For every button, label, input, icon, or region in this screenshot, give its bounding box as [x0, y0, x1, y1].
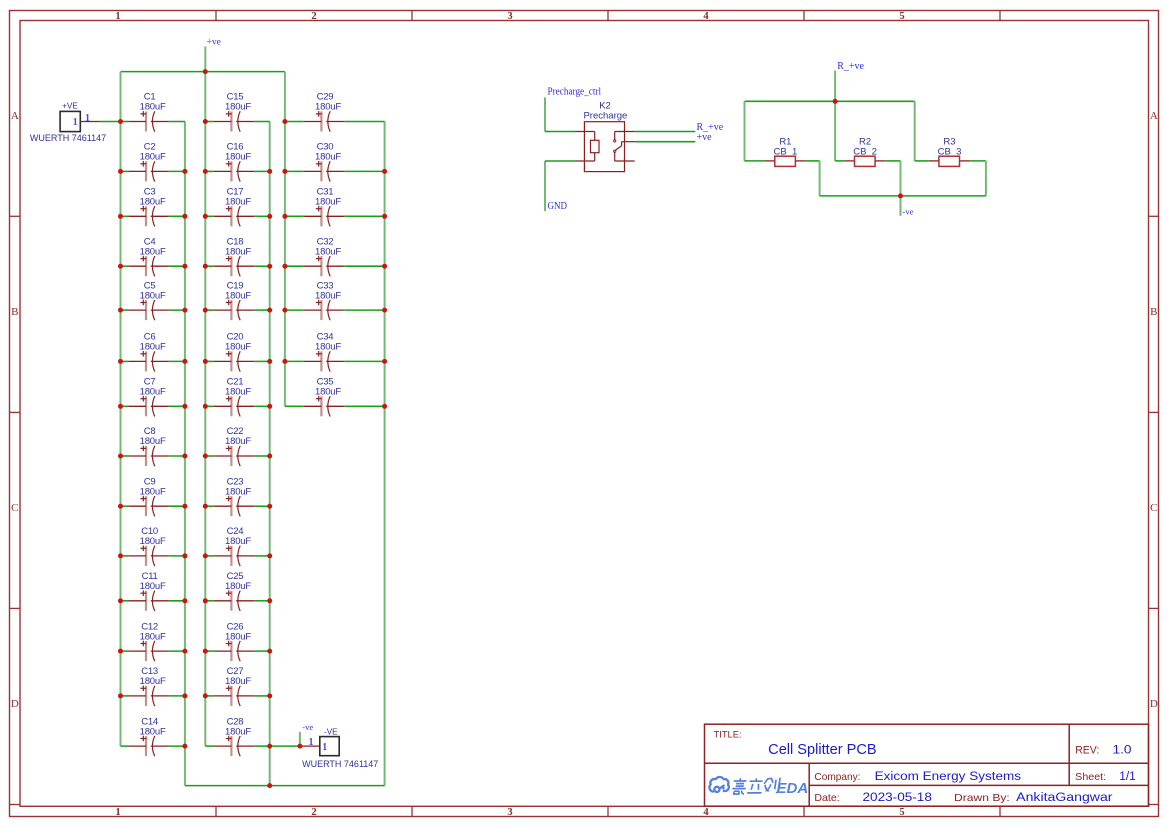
ruler tick right y=216.3	[1149, 215, 1159, 217]
wire row C23	[205, 505, 214, 507]
ruler tick top x=1000	[999, 11, 1001, 21]
wire bottom bus horizontal	[185, 785, 385, 787]
connector J +VE box	[60, 111, 80, 131]
svg-text:1: 1	[309, 737, 314, 748]
svg-text:180uF: 180uF	[225, 342, 251, 353]
svg-text:1: 1	[85, 113, 90, 124]
junction column 1 right rail row 12	[182, 649, 187, 654]
junction column 1 left rail row 6	[118, 359, 123, 364]
svg-text:Sheet:: Sheet:	[1075, 771, 1106, 783]
wire column 2 right rail vertical	[269, 122, 271, 786]
svg-text:180uF: 180uF	[140, 581, 166, 592]
wire row C17	[205, 215, 214, 217]
svg-text:3: 3	[507, 11, 512, 22]
junction column 2 left rail row 27	[203, 693, 208, 698]
capacitor C7 180uF	[128, 377, 168, 417]
capacitor C35 180uF	[304, 377, 344, 417]
junction column 1 right rail row 4	[182, 264, 187, 269]
svg-text:180uF: 180uF	[140, 536, 166, 547]
junction column 2 right rail row 20	[267, 359, 272, 364]
svg-text:D: D	[11, 698, 19, 710]
svg-text:180uF: 180uF	[225, 536, 251, 547]
junction column 2 left rail row 23	[203, 504, 208, 509]
svg-text:C: C	[1150, 502, 1157, 514]
capacitor C3 180uF	[128, 187, 168, 227]
wire R1 out vertical	[819, 161, 821, 196]
svg-text:180uF: 180uF	[225, 290, 251, 301]
svg-text:1.0: 1.0	[1113, 744, 1132, 756]
logo JLC EDA text 嘉立创	[732, 778, 781, 794]
wire R2 left	[835, 160, 844, 162]
junction column 1 left rail row 8	[118, 454, 123, 459]
wire top bus horizontal	[121, 71, 285, 73]
wire row C30	[285, 170, 304, 172]
svg-text:+VE: +VE	[62, 102, 78, 111]
svg-text:180uF: 180uF	[140, 102, 166, 113]
svg-text:5: 5	[899, 11, 904, 22]
capacitor C10 180uF	[128, 526, 168, 566]
title block outline	[705, 724, 1149, 806]
svg-text:C: C	[11, 502, 18, 514]
svg-text:180uF: 180uF	[140, 726, 166, 737]
svg-text:180uF: 180uF	[225, 152, 251, 163]
ruler tick top x=412	[411, 11, 413, 21]
svg-text:TITLE:: TITLE:	[714, 729, 742, 739]
svg-text:WUERTH 7461147: WUERTH 7461147	[30, 133, 106, 143]
svg-text:1: 1	[115, 11, 120, 22]
svg-text:180uF: 180uF	[225, 726, 251, 737]
svg-text:1: 1	[322, 742, 327, 753]
svg-text:180uF: 180uF	[315, 387, 341, 398]
relay K2 switch common	[614, 132, 616, 141]
svg-text:AnkitaGangwar: AnkitaGangwar	[1016, 792, 1113, 804]
junction column 2 left rail row 17	[203, 214, 208, 219]
svg-text:180uF: 180uF	[140, 342, 166, 353]
capacitor C13 180uF	[128, 666, 168, 706]
wire row C29	[285, 121, 304, 123]
junction column 2 left rail row 25	[203, 598, 208, 603]
ruler tick right y=608.4	[1149, 607, 1159, 609]
capacitor C18 180uF	[214, 236, 254, 276]
wire row C5	[121, 309, 129, 311]
wire -ve stub vertical	[299, 732, 301, 746]
relay K2 body box	[584, 122, 624, 172]
wire row C18	[205, 265, 214, 267]
svg-text:EDA: EDA	[777, 780, 809, 797]
svg-text:Precharge: Precharge	[583, 111, 627, 122]
wire K2 to R_+ve	[635, 131, 696, 133]
connector J -VE pin lead	[300, 745, 320, 747]
wire row C1	[121, 121, 129, 123]
junction column 2 right rail row 25	[267, 598, 272, 603]
junction column 3 right rail row 31	[382, 214, 387, 219]
logo JLC EDA cloud icon	[709, 777, 728, 792]
junction column 2 right rail row 21	[267, 404, 272, 409]
junction column 1 right rail row 5	[182, 308, 187, 313]
ruler tick left y=216.3	[10, 215, 21, 217]
capacitor C28 180uF	[214, 716, 254, 756]
junction column 1 right rail row 10	[182, 553, 187, 558]
svg-text:2: 2	[311, 11, 316, 22]
svg-text:-ve: -ve	[302, 722, 313, 732]
junction column 3 right rail row 30	[382, 169, 387, 174]
svg-text:1: 1	[73, 117, 78, 128]
svg-text:180uF: 180uF	[140, 152, 166, 163]
svg-text:+ve: +ve	[697, 132, 713, 143]
svg-text:180uF: 180uF	[140, 676, 166, 687]
junction column 2 right rail row 28	[267, 744, 272, 749]
capacitor C24 180uF	[214, 526, 254, 566]
ruler tick top x=216	[215, 11, 217, 21]
svg-text:B: B	[11, 306, 18, 318]
junction column 3 right rail row 35	[382, 404, 387, 409]
svg-text:180uF: 180uF	[225, 197, 251, 208]
wire R3 left	[915, 160, 929, 162]
junction column 1 left rail row 13	[118, 693, 123, 698]
junction column 3 right rail row 34	[382, 359, 387, 364]
svg-text:180uF: 180uF	[225, 486, 251, 497]
svg-text:+ve: +ve	[207, 38, 221, 48]
capacitor C31 180uF	[304, 187, 344, 227]
capacitor C17 180uF	[214, 187, 254, 227]
svg-text:180uF: 180uF	[225, 102, 251, 113]
wire column 3 right rail vertical	[384, 122, 386, 786]
wire R2 right	[885, 160, 900, 162]
ruler tick left y=608.4	[10, 607, 21, 609]
junction column 1 left rail row 5	[118, 308, 123, 313]
capacitor C21 180uF	[214, 377, 254, 417]
wire column 1 right rail vertical	[184, 122, 186, 786]
junction column 3 left rail row 33	[282, 308, 287, 313]
capacitor C6 180uF	[128, 332, 168, 372]
wire R2 out vertical	[900, 161, 902, 196]
capacitor C16 180uF	[214, 142, 254, 182]
wire R3 out vertical	[985, 161, 987, 196]
capacitor C29 180uF	[304, 92, 344, 132]
svg-text:Date:: Date:	[814, 792, 839, 804]
svg-text:R_+ve: R_+ve	[837, 61, 864, 72]
relay K2 pin lead left bottom	[575, 160, 595, 162]
svg-text:180uF: 180uF	[315, 342, 341, 353]
wire row C2	[121, 170, 129, 172]
junction column 2 right rail row 26	[267, 649, 272, 654]
capacitor C2 180uF	[128, 142, 168, 182]
svg-text:180uF: 180uF	[315, 246, 341, 257]
wire row C19	[205, 309, 214, 311]
junction top bus / +ve	[203, 69, 208, 74]
junction column 1 right rail row 7	[182, 404, 187, 409]
junction column 2 right rail row 18	[267, 264, 272, 269]
svg-text:B: B	[1150, 306, 1157, 318]
junction column 1 left rail row 3	[118, 214, 123, 219]
junction column 3 right rail row 32	[382, 264, 387, 269]
wire R1 drop vertical	[744, 101, 746, 161]
junction column 2 right rail row 17	[267, 214, 272, 219]
ruler tick top x=608	[607, 11, 609, 21]
svg-text:D: D	[1150, 698, 1158, 710]
wire row C16	[205, 170, 214, 172]
wire row C12	[121, 650, 129, 652]
junction column 1 right rail row 11	[182, 598, 187, 603]
relay K2 pin lead left top	[575, 131, 595, 133]
relay K2 coil	[591, 140, 600, 152]
wire row C22	[205, 455, 214, 457]
junction column 2 right rail row 22	[267, 454, 272, 459]
svg-text:REV:: REV:	[1075, 744, 1099, 756]
wire row C10	[121, 555, 129, 557]
junction column 3 right rail row 33	[382, 308, 387, 313]
svg-text:180uF: 180uF	[140, 246, 166, 257]
junction column 2 left rail row 22	[203, 454, 208, 459]
wire row C4	[121, 265, 129, 267]
junction column 1 right rail row 8	[182, 454, 187, 459]
wire row C34	[285, 360, 304, 362]
junction column 1 right rail row 14	[182, 744, 187, 749]
junction bottom bus / column 2	[267, 783, 272, 788]
svg-text:180uF: 180uF	[140, 290, 166, 301]
svg-text:180uF: 180uF	[225, 676, 251, 687]
svg-text:WUERTH 7461147: WUERTH 7461147	[302, 759, 378, 769]
junction resistor bottom bus	[898, 193, 903, 198]
wire GND horizontal	[545, 160, 575, 162]
junction column 1 left rail row 9	[118, 504, 123, 509]
wire row C25	[205, 600, 214, 602]
junction column 1 right rail row 9	[182, 504, 187, 509]
capacitor C12 180uF	[128, 621, 168, 661]
wire R3 drop vertical	[914, 101, 916, 161]
junction column 1 left rail row 2	[118, 169, 123, 174]
svg-text:180uF: 180uF	[140, 631, 166, 642]
junction column 1 left rail row 4	[118, 264, 123, 269]
svg-text:180uF: 180uF	[315, 290, 341, 301]
wire row C33	[285, 309, 304, 311]
junction column 2 right rail row 16	[267, 169, 272, 174]
svg-text:180uF: 180uF	[315, 152, 341, 163]
wire row C15	[205, 121, 214, 123]
ruler tick bottom x=1000	[999, 806, 1001, 816]
capacitor C34 180uF	[304, 332, 344, 372]
svg-text:180uF: 180uF	[315, 102, 341, 113]
junction column 3 left rail row 34	[282, 359, 287, 364]
wire row C24	[205, 555, 214, 557]
wire -ve stub (resistors)	[900, 196, 902, 216]
wire +VE pin to rail	[100, 121, 121, 123]
junction column 1 right rail row 13	[182, 693, 187, 698]
junction column 2 left rail row 15	[203, 119, 208, 124]
capacitor C11 180uF	[128, 571, 168, 611]
ruler tick left y=412.4	[10, 411, 21, 413]
junction column 1 right rail row 3	[182, 214, 187, 219]
junction column 1 left rail row 11	[118, 598, 123, 603]
wire row C27	[205, 695, 214, 697]
capacitor C20 180uF	[214, 332, 254, 372]
wire row C11	[121, 600, 129, 602]
svg-text:1: 1	[115, 807, 120, 818]
junction column 1 left rail row 1	[118, 119, 123, 124]
junction column 3 left rail row 29	[282, 119, 287, 124]
svg-text:180uF: 180uF	[140, 436, 166, 447]
wire R1 left	[745, 160, 765, 162]
ruler tick bottom x=216	[215, 806, 217, 816]
junction column 2 left rail row 16	[203, 169, 208, 174]
svg-text:Company:: Company:	[814, 771, 860, 783]
svg-text:180uF: 180uF	[140, 486, 166, 497]
junction column 2 left rail row 20	[203, 359, 208, 364]
ruler tick right y=412.4	[1149, 411, 1159, 413]
capacitor C33 180uF	[304, 280, 344, 320]
svg-text:A: A	[11, 110, 19, 122]
junction column 2 left rail row 21	[203, 404, 208, 409]
svg-text:2: 2	[311, 807, 316, 818]
junction column 1 right rail row 6	[182, 359, 187, 364]
ruler tick right y=804.5	[1149, 804, 1159, 806]
svg-text:180uF: 180uF	[225, 387, 251, 398]
wire row C35	[285, 405, 304, 407]
svg-text:A: A	[1150, 110, 1158, 122]
svg-text:180uF: 180uF	[140, 197, 166, 208]
wire row C20	[205, 360, 214, 362]
title block divider vertical logo	[808, 763, 810, 806]
capacitor C19 180uF	[214, 280, 254, 320]
capacitor C25 180uF	[214, 571, 254, 611]
svg-text:GND: GND	[548, 201, 568, 212]
capacitor C27 180uF	[214, 666, 254, 706]
wire resistor bottom bus	[820, 195, 986, 197]
title block divider horizontal 1	[705, 762, 1149, 764]
svg-text:5: 5	[899, 807, 904, 818]
capacitor C26 180uF	[214, 621, 254, 661]
resistor R1 CB_1	[765, 137, 806, 167]
svg-text:Exicom Energy Systems: Exicom Energy Systems	[875, 771, 1022, 783]
wire row C8	[121, 455, 129, 457]
relay K2 switch contact top	[614, 140, 616, 142]
svg-text:1/1: 1/1	[1119, 771, 1136, 783]
capacitor C8 180uF	[128, 426, 168, 466]
junction -ve / C28 row	[297, 744, 302, 749]
junction column 3 left rail row 32	[282, 264, 287, 269]
title block divider vertical rev/sheet	[1068, 724, 1070, 785]
ruler tick top x=804	[803, 11, 805, 21]
wire column 3 left rail vertical	[284, 72, 286, 407]
wire column 1 left rail vertical	[120, 72, 122, 747]
svg-text:3: 3	[507, 807, 512, 818]
svg-text:180uF: 180uF	[225, 581, 251, 592]
junction column 2 right rail row 27	[267, 693, 272, 698]
ruler tick left y=804.5	[10, 804, 21, 806]
junction column 1 left rail row 10	[118, 553, 123, 558]
wire R1 right	[806, 160, 820, 162]
junction column 2 right rail row 23	[267, 504, 272, 509]
capacitor C32 180uF	[304, 236, 344, 276]
title block divider horizontal 2	[809, 784, 1148, 786]
ruler tick bottom x=804	[803, 806, 805, 816]
junction resistor top bus	[833, 99, 838, 104]
capacitor C5 180uF	[128, 280, 168, 320]
capacitor C1 180uF	[128, 92, 168, 132]
wire row C31	[285, 215, 304, 217]
capacitor C14 180uF	[128, 716, 168, 756]
wire column 2 left rail vertical	[204, 72, 206, 747]
wire Precharge_ctrl vertical	[544, 97, 546, 131]
resistor R3 CB_3	[929, 137, 970, 167]
svg-text:2023-05-18: 2023-05-18	[863, 792, 932, 804]
svg-text:Precharge_ctrl: Precharge_ctrl	[548, 86, 602, 97]
junction column 2 left rail row 19	[203, 308, 208, 313]
junction column 1 left rail row 7	[118, 404, 123, 409]
wire K2 to +ve	[635, 141, 696, 143]
wire row C14	[121, 745, 129, 747]
wire R_+ve stub vertical	[834, 71, 836, 102]
svg-text:Drawn By:: Drawn By:	[954, 792, 1010, 804]
svg-text:180uF: 180uF	[225, 631, 251, 642]
capacitor C23 180uF	[214, 476, 254, 516]
svg-text:-VE: -VE	[324, 728, 338, 737]
relay K2 switch contact bottom	[614, 150, 616, 152]
wire GND vertical	[544, 161, 546, 211]
wire row C32	[285, 265, 304, 267]
wire row C6	[121, 360, 129, 362]
relay K2 pin lead right bottom stub	[614, 152, 616, 161]
wire R2 drop vertical	[834, 101, 836, 161]
svg-text:180uF: 180uF	[225, 246, 251, 257]
svg-text:180uF: 180uF	[315, 197, 341, 208]
wire R3 right	[970, 160, 986, 162]
relay K2 switch blade	[615, 146, 621, 151]
junction column 2 right rail row 19	[267, 308, 272, 313]
wire row C26	[205, 650, 214, 652]
wire row C3	[121, 215, 129, 217]
wire row C28	[205, 745, 214, 747]
junction column 2 right rail row 24	[267, 553, 272, 558]
svg-text:Cell Splitter PCB: Cell Splitter PCB	[768, 742, 876, 758]
wire C28 row extension to -VE	[270, 745, 300, 747]
ruler tick bottom x=412	[411, 806, 413, 816]
svg-text:4: 4	[703, 11, 709, 22]
junction column 1 right rail row 2	[182, 169, 187, 174]
ruler tick bottom x=608	[607, 806, 609, 816]
wire resistor top bus	[745, 100, 915, 102]
capacitor C22 180uF	[214, 426, 254, 466]
svg-text:4: 4	[703, 807, 709, 818]
junction column 2 left rail row 26	[203, 649, 208, 654]
resistor R2 CB_2	[844, 137, 885, 167]
svg-text:180uF: 180uF	[140, 387, 166, 398]
junction column 1 left rail row 12	[118, 649, 123, 654]
junction column 2 left rail row 18	[203, 264, 208, 269]
wire Precharge_ctrl horizontal	[545, 131, 575, 133]
junction column 2 left rail row 24	[203, 553, 208, 558]
junction column 3 left rail row 31	[282, 214, 287, 219]
wire row C13	[121, 695, 129, 697]
connector J -VE box	[320, 737, 339, 756]
capacitor C4 180uF	[128, 236, 168, 276]
wire +ve stub vertical	[204, 47, 206, 72]
wire row C7	[121, 405, 129, 407]
wire row C21	[205, 405, 214, 407]
capacitor C15 180uF	[214, 92, 254, 132]
capacitor C9 180uF	[128, 476, 168, 516]
connector +VE pin 1 lead	[80, 121, 100, 123]
wire row C9	[121, 505, 129, 507]
capacitor C30 180uF	[304, 142, 344, 182]
junction column 3 left rail row 30	[282, 169, 287, 174]
svg-text:180uF: 180uF	[225, 436, 251, 447]
svg-text:-ve: -ve	[903, 207, 914, 217]
